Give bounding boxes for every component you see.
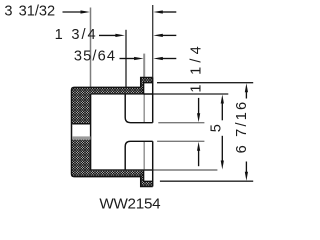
svg-text:1/4: 1/4 (189, 42, 205, 75)
svg-text:5: 5 (208, 124, 224, 132)
svg-text:3/4: 3/4 (71, 27, 97, 43)
svg-text:1: 1 (189, 84, 205, 92)
svg-text:1: 1 (55, 27, 63, 43)
svg-text:6 7/16: 6 7/16 (234, 100, 250, 154)
svg-text:31/32: 31/32 (19, 3, 56, 19)
svg-text:WW2154: WW2154 (99, 195, 160, 212)
svg-text:3: 3 (4, 3, 12, 19)
svg-text:35/64: 35/64 (74, 49, 116, 65)
